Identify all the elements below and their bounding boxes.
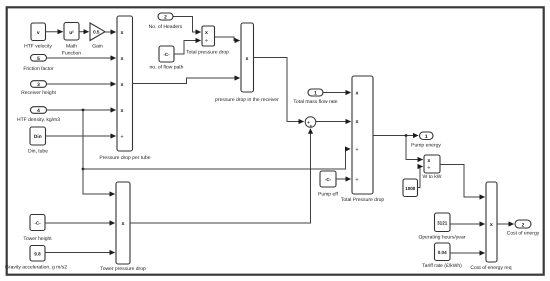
constant block Din tube <box>28 127 48 155</box>
svg-text:1: 1 <box>314 91 317 97</box>
math function block U1 (u^2) <box>62 23 81 57</box>
svg-text:+: + <box>309 124 312 129</box>
svg-text:Pump eff: Pump eff <box>318 192 339 198</box>
svg-text:x: x <box>121 30 124 36</box>
wire 1000 to W to kW port2 <box>418 167 423 188</box>
wire 3121 to Cost of energy req port2 <box>450 223 485 225</box>
svg-text:-C-: -C- <box>163 52 170 57</box>
svg-text:x: x <box>205 30 208 36</box>
svg-text:0.04: 0.04 <box>438 250 447 255</box>
svg-text:x: x <box>121 108 124 114</box>
svg-text:x: x <box>356 90 359 96</box>
inport 4 HTF density <box>17 107 60 123</box>
svg-text:4: 4 <box>37 108 40 114</box>
svg-text:Tower pressure drop: Tower pressure drop <box>100 266 146 272</box>
svg-text:÷: ÷ <box>356 147 359 153</box>
wire Cost of energy req to outport 2 <box>497 223 514 225</box>
svg-text:Total mass flow rate: Total mass flow rate <box>293 99 337 105</box>
svg-text:Pressure drop per tube: Pressure drop per tube <box>99 155 150 161</box>
wire branch down to W to kW port1 <box>406 136 423 160</box>
wire Tower pressure drop to sum bottom <box>130 129 311 223</box>
junction rho line <box>82 168 85 171</box>
outport 1 Total mass flow rate <box>293 89 337 105</box>
constant block Pump eff <box>318 171 339 198</box>
svg-text:Operating hours/year: Operating hours/year <box>419 235 466 241</box>
svg-text:Gravity acceleration, g m/s2: Gravity acceleration, g m/s2 <box>5 265 67 271</box>
svg-text:no. of flow path: no. of flow path <box>150 65 184 71</box>
wire Pump eff to Total Pressure drop port4 <box>336 178 351 180</box>
product block Tower pressure drop <box>100 182 146 272</box>
wire W to kW to Cost of energy req port1 <box>440 165 485 198</box>
constant block 9.8 gravity <box>5 246 67 271</box>
svg-text:÷: ÷ <box>205 39 208 45</box>
junction density branch <box>82 109 85 112</box>
svg-text:÷: ÷ <box>427 165 430 171</box>
wire Total Pressure drop to Pump energy <box>373 135 418 137</box>
wire receiver block to sum <box>254 58 304 122</box>
svg-text:-C-: -C- <box>34 221 41 226</box>
junction pump energy branch <box>405 134 408 137</box>
svg-text:x: x <box>121 56 124 62</box>
svg-text:W to kW: W to kW <box>423 174 442 180</box>
svg-text:2: 2 <box>164 15 167 21</box>
svg-text:pressure drop in the receiver: pressure drop in the receiver <box>215 97 279 103</box>
svg-text:3121: 3121 <box>437 221 448 226</box>
svg-text:Tariff rate (£/kWh): Tariff rate (£/kWh) <box>422 263 462 269</box>
wire No. of Headers to divide port1 <box>173 17 201 33</box>
svg-text:Math: Math <box>66 44 77 50</box>
svg-text:v: v <box>37 31 40 36</box>
inport 3 Receiver height <box>21 81 56 96</box>
svg-text:9.8: 9.8 <box>34 252 41 257</box>
outport 1 Pump energy <box>411 132 441 149</box>
svg-text:1: 1 <box>425 134 428 140</box>
svg-text:0.5: 0.5 <box>93 30 100 35</box>
wire divide to receiver block port1 <box>215 37 240 41</box>
wire Pressure drop per tube to receiver block port2 <box>133 78 240 84</box>
svg-text:2: 2 <box>522 222 525 228</box>
wire HTF velocity to Math Function <box>46 31 63 33</box>
svg-text:x: x <box>356 119 359 125</box>
wire Receiver height to port3 <box>47 83 116 85</box>
constant block Tower height <box>23 215 52 243</box>
svg-text:1000: 1000 <box>405 186 416 191</box>
constant block 3121 Operating hours <box>419 213 466 241</box>
svg-text:HTF density, kg/m3: HTF density, kg/m3 <box>17 117 60 123</box>
svg-text:3: 3 <box>37 82 40 88</box>
constant block no. of flow path <box>150 46 184 71</box>
constant block HTF velocity <box>24 23 52 50</box>
divide block W to kW <box>423 155 442 180</box>
wire Tower height to Tower pressure drop port2 <box>45 222 115 224</box>
wire HTF density to port4 <box>47 109 116 111</box>
wire Din to port5 <box>46 135 116 137</box>
svg-text:Total pressure drop: Total pressure drop <box>186 50 229 56</box>
wire density branch to Tower pressure drop port1 <box>83 169 115 194</box>
wire rho long line to Total Pressure drop port3 <box>83 149 350 169</box>
product block Total Pressure drop <box>341 76 385 203</box>
product block Pressure drop per tube <box>99 16 150 161</box>
svg-text:HTF velocity: HTF velocity <box>24 44 52 50</box>
svg-text:u²: u² <box>69 30 74 36</box>
svg-text:÷: ÷ <box>356 177 359 183</box>
constant block 0.04 Tariff rate <box>422 243 462 269</box>
sum block ++ <box>305 117 316 129</box>
svg-text:Din: Din <box>34 134 42 140</box>
svg-text:Din, tube: Din, tube <box>28 149 48 155</box>
wire Math Function to Gain <box>79 31 89 33</box>
svg-text:÷: ÷ <box>121 134 124 140</box>
svg-text:x: x <box>122 221 125 227</box>
svg-text:Friction factor: Friction factor <box>23 66 54 72</box>
divide block Total pressure drop <box>186 26 229 56</box>
svg-text:Function: Function <box>62 51 81 57</box>
product block pressure drop in the receiver <box>215 23 279 103</box>
wire 9.8 to Tower pressure drop port3 <box>45 252 115 254</box>
outport 2 Cost of energy <box>507 220 540 237</box>
wire sum to Total Pressure drop port2 <box>316 121 351 123</box>
wire Gain to Pressure drop per tube port1 <box>105 31 116 33</box>
svg-text:No. of Headers: No. of Headers <box>149 24 183 30</box>
wire 0.04 to Cost of energy req port3 <box>450 252 485 254</box>
product block Cost of energy req <box>470 182 511 271</box>
wire Friction factor to port2 <box>47 57 116 59</box>
svg-text:x: x <box>490 222 493 228</box>
wire no. of flow path to divide port2 <box>174 41 201 55</box>
outport 2 No. of Headers <box>149 13 183 30</box>
svg-text:Receiver height: Receiver height <box>21 90 56 96</box>
svg-text:Total Pressure drop: Total Pressure drop <box>341 197 385 203</box>
svg-text:Tower height: Tower height <box>23 236 52 242</box>
svg-text:5: 5 <box>37 56 40 62</box>
svg-text:x: x <box>427 158 430 164</box>
constant block 1000 <box>403 179 418 197</box>
gain block 0.5 <box>90 23 105 50</box>
svg-text:Cost of energy: Cost of energy <box>507 231 540 237</box>
svg-text:-C-: -C- <box>325 177 332 182</box>
svg-text:Gain: Gain <box>92 44 103 50</box>
inport 5 Friction factor <box>23 55 54 73</box>
svg-text:Cost of energy req: Cost of energy req <box>470 265 511 271</box>
svg-text:x: x <box>246 56 249 62</box>
svg-text:Pump energy: Pump energy <box>411 143 441 149</box>
svg-text:x: x <box>121 82 124 88</box>
wire density branch down to long rho line <box>82 110 84 169</box>
wire Total mass flow rate to Total Pressure drop port1 <box>323 92 351 94</box>
